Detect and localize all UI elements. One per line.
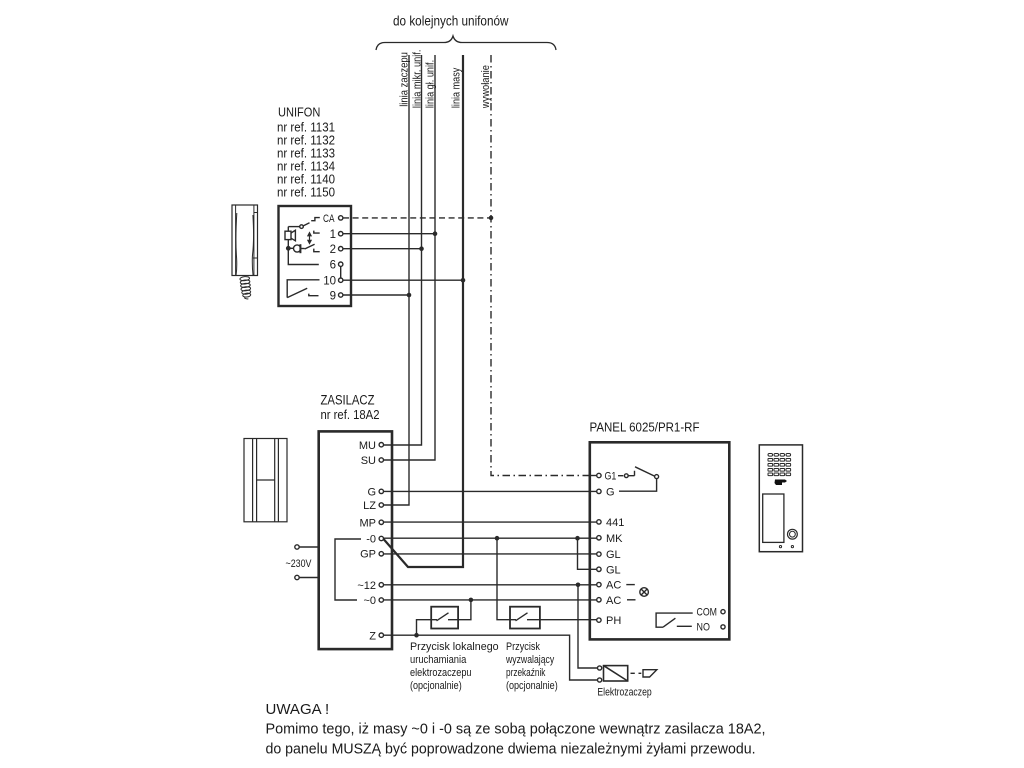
transformer drawing — [244, 439, 287, 522]
junction Z/button1 — [414, 633, 419, 638]
door panel button outer — [788, 529, 798, 539]
entry panel box — [590, 442, 730, 639]
svg-text:1: 1 — [330, 229, 336, 241]
svg-text:przekaźnik: przekaźnik — [506, 667, 546, 679]
svg-text:nr ref. 1134: nr ref. 1134 — [277, 160, 335, 174]
electric strike wedge symbol — [631, 670, 657, 677]
terminal ~12 — [379, 583, 383, 587]
svg-text:(opcjonalnie): (opcjonalnie) — [506, 680, 558, 692]
terminal G1 — [597, 473, 601, 477]
terminal G — [379, 489, 383, 493]
wire: linia gl. unif. riser (to SU) — [384, 55, 435, 460]
wire CA dashed to wywolanie — [343, 217, 491, 219]
svg-text:Elektrozaczep: Elektrozaczep — [597, 687, 651, 699]
wire branch MK to GL2 — [578, 538, 597, 569]
handset drawing — [232, 205, 258, 300]
svg-text:UWAGA !: UWAGA ! — [266, 701, 330, 718]
unifon internals: hook switch contact CA — [288, 218, 320, 229]
door panel button inner — [790, 531, 796, 537]
wire ~12 to panel AC — [384, 584, 597, 586]
terminal MP — [379, 520, 383, 524]
svg-text:wyzwalający: wyzwalający — [505, 654, 554, 666]
panel internal switch G1-G — [618, 467, 659, 491]
svg-text:2: 2 — [330, 244, 336, 256]
wire: linia mikr. unif. riser (to MU) — [384, 55, 422, 445]
svg-text:Przycisk: Przycisk — [506, 641, 540, 653]
junction -0/button2 — [495, 536, 500, 541]
terminal G(panel) — [597, 489, 601, 493]
wire 1 to linia gl. — [343, 233, 435, 235]
svg-text:nr ref. 1131: nr ref. 1131 — [277, 121, 335, 135]
wire 10 to linia masy — [343, 279, 463, 281]
svg-text:441: 441 — [606, 517, 624, 529]
pushbutton S2 (relay trigger) — [497, 538, 597, 628]
svg-text:elektrozaczepu: elektrozaczepu — [410, 667, 472, 679]
svg-text:SU: SU — [361, 455, 376, 467]
terminal GL — [597, 552, 601, 556]
terminal ~0 — [379, 598, 383, 602]
terminal PH — [597, 618, 601, 622]
mains input ~230V terminal lower — [295, 575, 299, 579]
svg-text:(opcjonalnie): (opcjonalnie) — [410, 680, 462, 692]
terminal 2 — [339, 247, 343, 251]
terminal MU — [379, 443, 383, 447]
panel relay contact COM/NO — [656, 613, 693, 627]
svg-text:nr ref. 1150: nr ref. 1150 — [277, 186, 335, 200]
terminal SU — [379, 458, 383, 462]
junction 10 — [461, 278, 466, 283]
unifon internals: hook switch to 10/9 — [287, 280, 319, 298]
svg-text:linia mikr. unif.: linia mikr. unif. — [412, 50, 424, 109]
unifon box U1 — [279, 206, 352, 306]
unifon internals: wire to terminal 6 — [288, 250, 319, 265]
junction CA/wywolanie — [489, 216, 494, 221]
svg-text:-0: -0 — [366, 534, 376, 546]
electric strike terminal bottom — [598, 678, 602, 682]
junction 2 — [419, 246, 424, 251]
door panel microphone shape — [775, 480, 788, 486]
terminal 6 — [339, 262, 343, 266]
terminal AC — [597, 582, 601, 586]
svg-text:9: 9 — [330, 291, 336, 303]
unifon internals: speaker — [285, 227, 295, 249]
wire mains lower — [299, 577, 319, 579]
svg-text:linia masy: linia masy — [451, 67, 463, 108]
svg-text:~230V: ~230V — [286, 558, 313, 570]
svg-text:PH: PH — [606, 615, 621, 627]
svg-text:do kolejnych unifonów: do kolejnych unifonów — [393, 13, 509, 29]
svg-text:CA: CA — [323, 213, 335, 225]
unifon internals: contact 1 — [314, 231, 320, 234]
terminal GP — [379, 552, 383, 556]
door panel name plate — [763, 494, 784, 542]
svg-text:MU: MU — [359, 440, 376, 452]
svg-text:nr ref. 18A2: nr ref. 18A2 — [321, 408, 380, 422]
svg-text:PANEL 6025/PR1-RF: PANEL 6025/PR1-RF — [590, 420, 700, 435]
svg-text:~12: ~12 — [357, 580, 376, 592]
terminal COM — [721, 610, 725, 614]
panel lamp symbol — [626, 585, 648, 600]
svg-text:NO: NO — [697, 622, 711, 634]
svg-text:10: 10 — [323, 276, 336, 288]
svg-text:LZ: LZ — [363, 500, 376, 512]
svg-text:GL: GL — [606, 549, 621, 561]
internal jumper -0 to ~0 — [335, 539, 361, 600]
wire mains upper — [299, 546, 319, 548]
electric strike terminal top — [598, 666, 602, 670]
wire 2 to linia mikr. — [343, 248, 422, 250]
terminal 9 — [339, 293, 343, 297]
svg-text:GP: GP — [360, 549, 376, 561]
svg-text:Pomimo tego, iż masy ~0 i -0 s: Pomimo tego, iż masy ~0 i -0 są ze sobą … — [266, 721, 766, 738]
svg-text:uruchamiania: uruchamiania — [410, 654, 467, 666]
svg-text:~0: ~0 — [363, 595, 376, 607]
electric strike box — [604, 666, 628, 681]
junction AC/elektrozaczep — [576, 583, 581, 588]
power supply box 18A2 — [319, 431, 392, 649]
svg-text:AC: AC — [606, 580, 621, 592]
svg-text:linia zaczepu: linia zaczepu — [399, 52, 411, 107]
junction 1 — [433, 231, 438, 236]
svg-text:nr ref. 1133: nr ref. 1133 — [277, 147, 335, 161]
svg-text:nr ref. 1132: nr ref. 1132 — [277, 134, 335, 148]
junction MK/GL — [575, 536, 580, 541]
svg-text:linia gł. unif.: linia gł. unif. — [425, 60, 437, 108]
unifon internals: microphone — [287, 244, 315, 253]
svg-text:do panelu MUSZĄ być poprowadzo: do panelu MUSZĄ być poprowadzone dwiema … — [266, 741, 756, 758]
svg-text:ZASILACZ: ZASILACZ — [321, 393, 375, 408]
terminal LZ — [379, 503, 383, 507]
unifon internals: contact 2 — [314, 249, 320, 252]
pushbutton S1 (local release) — [417, 600, 471, 635]
terminal Z — [379, 633, 383, 637]
mains input ~230V terminal upper — [295, 545, 299, 549]
svg-text:COM: COM — [697, 607, 718, 619]
wire MP to panel 441 — [384, 521, 597, 523]
terminal 1 — [339, 232, 343, 236]
svg-text:UNIFON: UNIFON — [278, 105, 320, 120]
brace over riser lines — [376, 36, 556, 50]
wire: linia zaczepu riser (to LZ) — [384, 55, 409, 505]
junction 9 — [407, 293, 412, 298]
svg-text:nr ref. 1140: nr ref. 1140 — [277, 173, 335, 187]
svg-text:G1: G1 — [605, 471, 617, 483]
jumper wire 6-10 — [340, 266, 342, 278]
door panel speaker grille — [768, 454, 791, 476]
svg-text:MK: MK — [606, 533, 623, 545]
wire branch AC to elektrozaczep — [578, 585, 597, 668]
terminal AC2 — [597, 598, 601, 602]
terminal MK — [597, 536, 601, 540]
wire Z to elektrozaczep — [384, 635, 598, 680]
terminal 441 — [597, 520, 601, 524]
svg-text:GL: GL — [606, 565, 621, 577]
junction ~0/button1 — [469, 598, 474, 603]
terminal 10 — [339, 278, 343, 282]
svg-text:wywołanie: wywołanie — [480, 65, 492, 109]
door panel screw left — [779, 546, 781, 548]
unifon internals: arrow between contacts — [308, 233, 311, 244]
terminal -0 — [379, 536, 383, 540]
terminal GL2 — [597, 567, 601, 571]
terminal CA — [339, 216, 343, 220]
svg-text:Przycisk lokalnego: Przycisk lokalnego — [410, 641, 499, 653]
door panel drawing — [759, 445, 802, 552]
wire: linia masy riser (to -0) — [384, 55, 464, 567]
svg-text:AC: AC — [606, 595, 621, 607]
wire GP to panel GL — [384, 553, 597, 555]
svg-text:G: G — [367, 487, 376, 499]
wire G to panel G — [384, 490, 597, 492]
svg-text:MP: MP — [360, 518, 377, 530]
wire: wywolanie riser dash-dot (to G1) — [491, 55, 590, 476]
svg-text:Z: Z — [369, 631, 376, 643]
terminal NO — [721, 625, 725, 629]
svg-text:G: G — [606, 487, 615, 499]
wire -0 to panel MK — [384, 537, 597, 539]
wire ~0 to panel AC — [384, 599, 597, 601]
door panel screw right — [791, 546, 793, 548]
wire 9 to linia zaczepu — [343, 294, 409, 296]
svg-text:6: 6 — [330, 260, 336, 272]
